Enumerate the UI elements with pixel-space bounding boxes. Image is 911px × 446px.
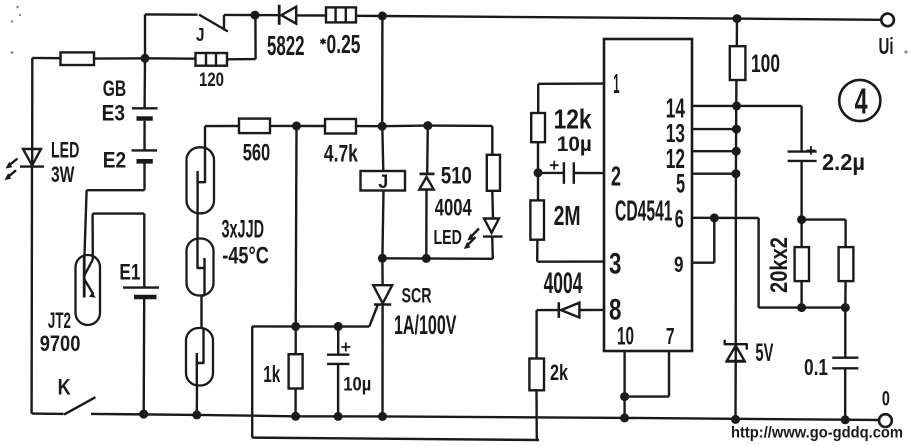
svg-text:10µ: 10µ xyxy=(343,375,371,396)
svg-text:10: 10 xyxy=(617,322,634,350)
svg-text:5V: 5V xyxy=(755,339,773,367)
svg-text:6: 6 xyxy=(675,205,684,233)
svg-text:4.7k: 4.7k xyxy=(324,141,358,168)
svg-text:J: J xyxy=(196,25,205,45)
svg-text:0.1: 0.1 xyxy=(804,354,828,380)
svg-text:12k: 12k xyxy=(554,104,592,135)
svg-text:9700: 9700 xyxy=(40,331,81,356)
svg-text:SCR: SCR xyxy=(402,284,432,308)
svg-text:0.25: 0.25 xyxy=(327,29,361,59)
svg-text:LED: LED xyxy=(51,138,79,163)
svg-text:3xJJD: 3xJJD xyxy=(222,216,265,244)
svg-text:0: 0 xyxy=(882,386,890,410)
svg-text:GB: GB xyxy=(103,76,126,101)
svg-text:E3: E3 xyxy=(102,101,125,126)
svg-text:E2: E2 xyxy=(103,148,126,173)
svg-text:CD4541: CD4541 xyxy=(615,196,673,228)
svg-text:510: 510 xyxy=(441,163,472,190)
svg-text:5822: 5822 xyxy=(267,30,305,61)
svg-text:560: 560 xyxy=(243,139,270,166)
svg-text:1: 1 xyxy=(613,68,619,99)
svg-text:3W: 3W xyxy=(51,162,75,187)
svg-text:Ui: Ui xyxy=(879,33,894,59)
svg-text:2k: 2k xyxy=(550,360,569,385)
svg-text:2: 2 xyxy=(611,161,621,192)
svg-text:JT2: JT2 xyxy=(48,308,71,333)
svg-text:2M: 2M xyxy=(554,200,581,231)
svg-text:1A/100V: 1A/100V xyxy=(394,310,457,340)
svg-text:100: 100 xyxy=(751,50,780,78)
svg-text:J: J xyxy=(378,171,388,193)
svg-text:9: 9 xyxy=(674,252,684,277)
svg-text:-45°C: -45°C xyxy=(222,242,269,269)
svg-text:10µ: 10µ xyxy=(557,133,592,156)
svg-text:E1: E1 xyxy=(119,259,140,284)
svg-text:1k: 1k xyxy=(263,361,281,387)
svg-text:4004: 4004 xyxy=(435,195,472,222)
svg-text:5: 5 xyxy=(676,168,685,198)
svg-text:4004: 4004 xyxy=(544,267,583,300)
svg-text:4: 4 xyxy=(855,80,868,121)
svg-text:3: 3 xyxy=(609,248,621,281)
svg-text:20kx2: 20kx2 xyxy=(766,237,793,293)
svg-text:2.2µ: 2.2µ xyxy=(822,149,865,175)
svg-text:LED: LED xyxy=(434,226,462,249)
svg-text:http://www.go-gddq.com: http://www.go-gddq.com xyxy=(731,425,903,442)
svg-text:120: 120 xyxy=(199,69,224,91)
svg-text:K: K xyxy=(58,375,72,400)
svg-text:7: 7 xyxy=(666,323,675,349)
